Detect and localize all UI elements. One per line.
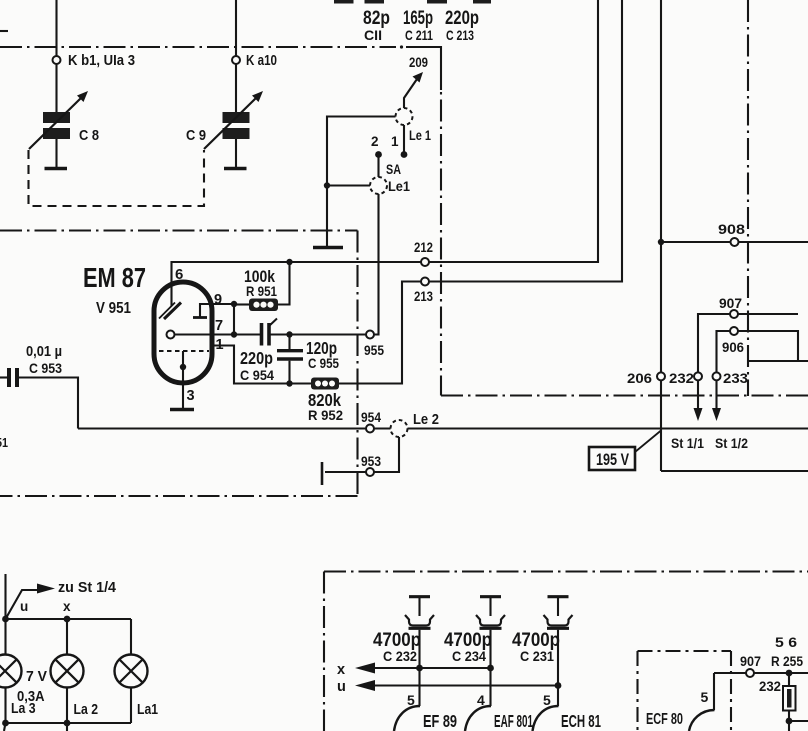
tube socket arc ECH81 bbox=[533, 706, 559, 731]
EM87 target electrode (slanted, hatched) bbox=[164, 303, 181, 320]
wire 908 horizontal bbox=[661, 241, 731, 243]
terminal dot 1 bbox=[401, 151, 408, 158]
svg-text:82p: 82p bbox=[363, 8, 390, 29]
svg-text:x: x bbox=[337, 662, 345, 678]
capacitor C954 bbox=[260, 323, 264, 346]
svg-text:209: 209 bbox=[409, 55, 428, 70]
svg-text:V 951: V 951 bbox=[96, 300, 131, 317]
terminal 906 bbox=[730, 327, 738, 335]
svg-text:220p: 220p bbox=[240, 348, 273, 368]
svg-text:908: 908 bbox=[718, 222, 746, 237]
svg-text:5: 5 bbox=[701, 689, 709, 705]
svg-text:La 2: La 2 bbox=[74, 702, 99, 718]
terminal 955 bbox=[366, 331, 374, 339]
frame dash-dot heater box top y=571.5 bbox=[324, 570, 808, 572]
capacitor C955 bbox=[288, 335, 290, 350]
wire Le2 to 953 bbox=[374, 437, 399, 472]
svg-text:1: 1 bbox=[391, 134, 399, 149]
frame dash-dot horizontal y=395.5 bbox=[441, 394, 808, 396]
wire 212 vertical right x=598 bbox=[429, 0, 598, 262]
EM87 pin7 fluorescent screen circle bbox=[167, 331, 175, 339]
capacitor C8 plates bbox=[43, 112, 70, 123]
node R952 left bbox=[286, 380, 292, 386]
wire 209 arrow bbox=[404, 79, 417, 108]
svg-text:954: 954 bbox=[361, 410, 381, 425]
terminal 212 bbox=[421, 258, 429, 266]
svg-text:195 V: 195 V bbox=[596, 450, 629, 469]
svg-text:R 255: R 255 bbox=[771, 654, 803, 669]
wire dot1 to Le1 bbox=[403, 125, 405, 155]
svg-text:CII: CII bbox=[364, 27, 382, 43]
mechanical coupling dashed C8-C9 bbox=[29, 150, 205, 206]
frame dash-dot heater box left x=324 bbox=[323, 572, 325, 731]
ground SA bbox=[313, 246, 343, 250]
capacitor plate stubs top edge bbox=[334, 0, 354, 4]
svg-text:906: 906 bbox=[722, 340, 744, 355]
wire C954 to 955 bbox=[269, 333, 366, 335]
capacitor C9 arrow bbox=[204, 98, 256, 149]
wire pin3 to ground bbox=[182, 351, 184, 408]
resistor R951 bbox=[234, 303, 249, 305]
svg-text:EM 87: EM 87 bbox=[83, 262, 146, 293]
lamp Le2 bbox=[391, 420, 408, 437]
node C955 top bbox=[286, 331, 292, 337]
wire pin1 bbox=[211, 346, 311, 384]
svg-text:ECF 80: ECF 80 bbox=[646, 711, 683, 728]
arrow down from 232 bbox=[697, 380, 699, 410]
EM87 internal grid electrode bbox=[199, 303, 201, 317]
St1 box bottom edge bbox=[661, 470, 808, 472]
arrow down from 233 bbox=[715, 380, 717, 410]
terminal 954 bbox=[366, 425, 374, 433]
terminal 908 bbox=[731, 238, 739, 246]
svg-text:6: 6 bbox=[175, 266, 183, 283]
terminal 953 bbox=[366, 468, 374, 476]
lamp La1 bbox=[130, 619, 132, 655]
capacitor C953 bbox=[0, 376, 7, 378]
svg-text:0,01 µ: 0,01 µ bbox=[26, 343, 62, 360]
svg-text:C 955: C 955 bbox=[308, 355, 339, 371]
wire x rail bbox=[375, 667, 491, 669]
wire 906 horizontal wrap bbox=[717, 331, 731, 372]
svg-text:212: 212 bbox=[414, 240, 433, 255]
svg-text:R 951: R 951 bbox=[246, 283, 277, 299]
St1 box left edge bbox=[660, 429, 662, 471]
terminal K b1 bbox=[53, 56, 61, 64]
frame dash-dot EM87 box right x=357.5 bbox=[356, 231, 358, 497]
wire lamp bottom rail bbox=[6, 722, 132, 724]
svg-text:C 211: C 211 bbox=[405, 27, 433, 43]
svg-text:9: 9 bbox=[214, 292, 222, 308]
wire Le1 left loop bbox=[327, 117, 396, 248]
svg-text:953: 953 bbox=[361, 454, 381, 469]
node R255 bottom bbox=[786, 718, 793, 725]
svg-text:3: 3 bbox=[187, 388, 195, 404]
svg-text:Le 1: Le 1 bbox=[409, 127, 431, 143]
terminal 233 bbox=[713, 372, 721, 380]
svg-text:u: u bbox=[337, 679, 346, 695]
svg-text:51: 51 bbox=[0, 435, 8, 450]
svg-text:C 954: C 954 bbox=[240, 367, 274, 383]
terminal dot 2 bbox=[375, 151, 382, 158]
svg-text:R 952: R 952 bbox=[308, 407, 343, 423]
ground C9 bbox=[224, 167, 247, 171]
stray dash at left edge bbox=[0, 30, 8, 32]
wire u rail bbox=[375, 684, 558, 686]
svg-text:K a10: K a10 bbox=[246, 53, 277, 69]
svg-text:232: 232 bbox=[759, 679, 781, 694]
svg-text:5: 5 bbox=[407, 692, 415, 708]
terminal 232 bbox=[694, 372, 702, 380]
svg-text:C 8: C 8 bbox=[79, 128, 99, 144]
svg-text:SA: SA bbox=[386, 162, 401, 177]
svg-text:La1: La1 bbox=[137, 702, 158, 718]
node pin7 tie bbox=[231, 331, 237, 337]
wire R255 bottom right bbox=[789, 720, 808, 722]
terminal 213 bbox=[421, 278, 429, 286]
wire lamp top rail bbox=[6, 618, 132, 620]
svg-text:zu St 1/4: zu St 1/4 bbox=[58, 580, 116, 596]
svg-text:955: 955 bbox=[364, 343, 384, 358]
svg-text:7 V: 7 V bbox=[26, 669, 47, 685]
frame dash-dot ECF80 box left bbox=[636, 651, 638, 731]
connector bar 953 bbox=[321, 462, 324, 485]
wire pin6 up and right to 212 bbox=[172, 262, 422, 306]
capacitor C8 arrow bbox=[29, 98, 81, 149]
svg-text:5 6: 5 6 bbox=[775, 634, 797, 650]
wire C8 to ground bbox=[55, 139, 57, 167]
svg-text:1: 1 bbox=[216, 337, 224, 353]
svg-text:Le 2: Le 2 bbox=[413, 412, 439, 428]
terminal 907 ECF80 bbox=[746, 669, 754, 677]
wire dot2 to SA lamp bbox=[377, 155, 379, 178]
tube socket arc EAF801 bbox=[465, 706, 491, 731]
wire pin9 bbox=[200, 303, 234, 305]
wire main HT vertical x=661 bbox=[660, 0, 662, 372]
wire 955 line / St box top y=428.5 bbox=[78, 427, 366, 429]
EM87 tube envelope bbox=[154, 282, 212, 383]
frame dash-dot EM87 box bottom y=496 bbox=[0, 495, 358, 497]
ground pin3 bbox=[170, 408, 194, 412]
tube socket arc ECF80 bbox=[689, 710, 715, 731]
svg-text:7: 7 bbox=[215, 318, 223, 334]
lamp La3 bbox=[4, 619, 6, 655]
svg-text:907: 907 bbox=[740, 654, 761, 669]
frame dash-dot top-left horizontal bbox=[0, 46, 396, 48]
resistor R255 bbox=[788, 673, 790, 686]
svg-text:St 1/1: St 1/1 bbox=[671, 436, 704, 451]
terminal 907 bbox=[730, 310, 738, 318]
svg-text:213: 213 bbox=[414, 289, 433, 304]
wire K b1 vertical bbox=[55, 0, 57, 56]
heater symbol ECH81 bbox=[548, 595, 569, 598]
lamp Le1 upper bbox=[396, 108, 413, 125]
wire pin7 to C954 bbox=[175, 333, 261, 335]
wire 907 horizontal and down bbox=[738, 313, 798, 315]
svg-text:C 213: C 213 bbox=[446, 27, 474, 43]
node pin6/R951 bbox=[286, 259, 292, 265]
svg-text:C 231: C 231 bbox=[520, 648, 554, 664]
svg-text:232: 232 bbox=[669, 371, 694, 386]
node R255 top bbox=[786, 670, 793, 677]
frame dash-dot EM87 box top y=230.5 bbox=[0, 229, 358, 231]
svg-text:233: 233 bbox=[723, 371, 749, 386]
EM87 internal deflection electrode (dashed) bbox=[159, 350, 209, 352]
wire SA lamp left bbox=[327, 184, 370, 186]
wire C9 to ground bbox=[235, 139, 237, 167]
node at 661,242.5 bbox=[658, 239, 664, 245]
wire 213 vertical right x=622 bbox=[429, 0, 622, 282]
svg-text:2: 2 bbox=[371, 134, 379, 149]
heater symbol EF89 bbox=[409, 595, 430, 598]
svg-text:La 3: La 3 bbox=[11, 701, 36, 717]
node pin9/pin7 tie top bbox=[231, 301, 237, 307]
svg-text:St 1/2: St 1/2 bbox=[715, 436, 748, 451]
svg-text:ECH 81: ECH 81 bbox=[561, 711, 601, 731]
wire 955 to SA lamp bbox=[374, 194, 379, 335]
svg-text:C 232: C 232 bbox=[383, 648, 417, 664]
svg-text:907: 907 bbox=[719, 296, 742, 311]
terminal 206 bbox=[657, 372, 665, 380]
wire zu St 1/4 bbox=[4, 574, 6, 619]
svg-text:5: 5 bbox=[543, 692, 551, 708]
svg-text:220p: 220p bbox=[445, 8, 479, 29]
lamp SA Le1 bbox=[370, 177, 387, 194]
195V callout box bbox=[589, 447, 635, 470]
svg-text:x: x bbox=[63, 599, 71, 614]
wire 907 R255 line bbox=[714, 672, 746, 674]
heater symbol EAF801 bbox=[480, 595, 501, 598]
terminal K a10 bbox=[232, 56, 240, 64]
frame dash-dot ECF80 box top bbox=[638, 650, 732, 652]
svg-text:C 953: C 953 bbox=[29, 360, 62, 376]
frame dash-dot ECF80 box right bbox=[730, 651, 732, 731]
svg-text:EF 89: EF 89 bbox=[423, 711, 457, 731]
wire pin9-pin7 tie bbox=[233, 304, 235, 335]
EM87 cathode node bbox=[180, 364, 186, 370]
frame dash-dot vertical x=441 bbox=[440, 92, 442, 396]
lamp La2 bbox=[66, 619, 68, 655]
svg-text:u: u bbox=[20, 599, 28, 614]
wire K a10 vertical bbox=[235, 0, 237, 56]
svg-text:C 234: C 234 bbox=[452, 648, 486, 664]
svg-text:C 9: C 9 bbox=[186, 128, 206, 144]
node SA left bbox=[324, 182, 330, 188]
svg-text:4: 4 bbox=[477, 692, 485, 708]
tube socket arc EF89 bbox=[394, 706, 420, 731]
svg-text:K b1, UIa 3: K b1, UIa 3 bbox=[68, 53, 135, 69]
svg-text:165p: 165p bbox=[403, 8, 433, 29]
ground C8 bbox=[45, 167, 68, 171]
capacitor C9 plates bbox=[223, 112, 250, 123]
wire ECF80 pin5 bbox=[713, 673, 715, 710]
frame dash-dot right vertical x=748 bbox=[747, 0, 749, 396]
svg-text:206: 206 bbox=[627, 371, 653, 386]
resistor R952 bbox=[311, 378, 339, 390]
wire R952 to 213 bbox=[339, 282, 421, 384]
svg-text:Le1: Le1 bbox=[388, 178, 410, 194]
svg-text:EAF 801: EAF 801 bbox=[494, 711, 533, 731]
